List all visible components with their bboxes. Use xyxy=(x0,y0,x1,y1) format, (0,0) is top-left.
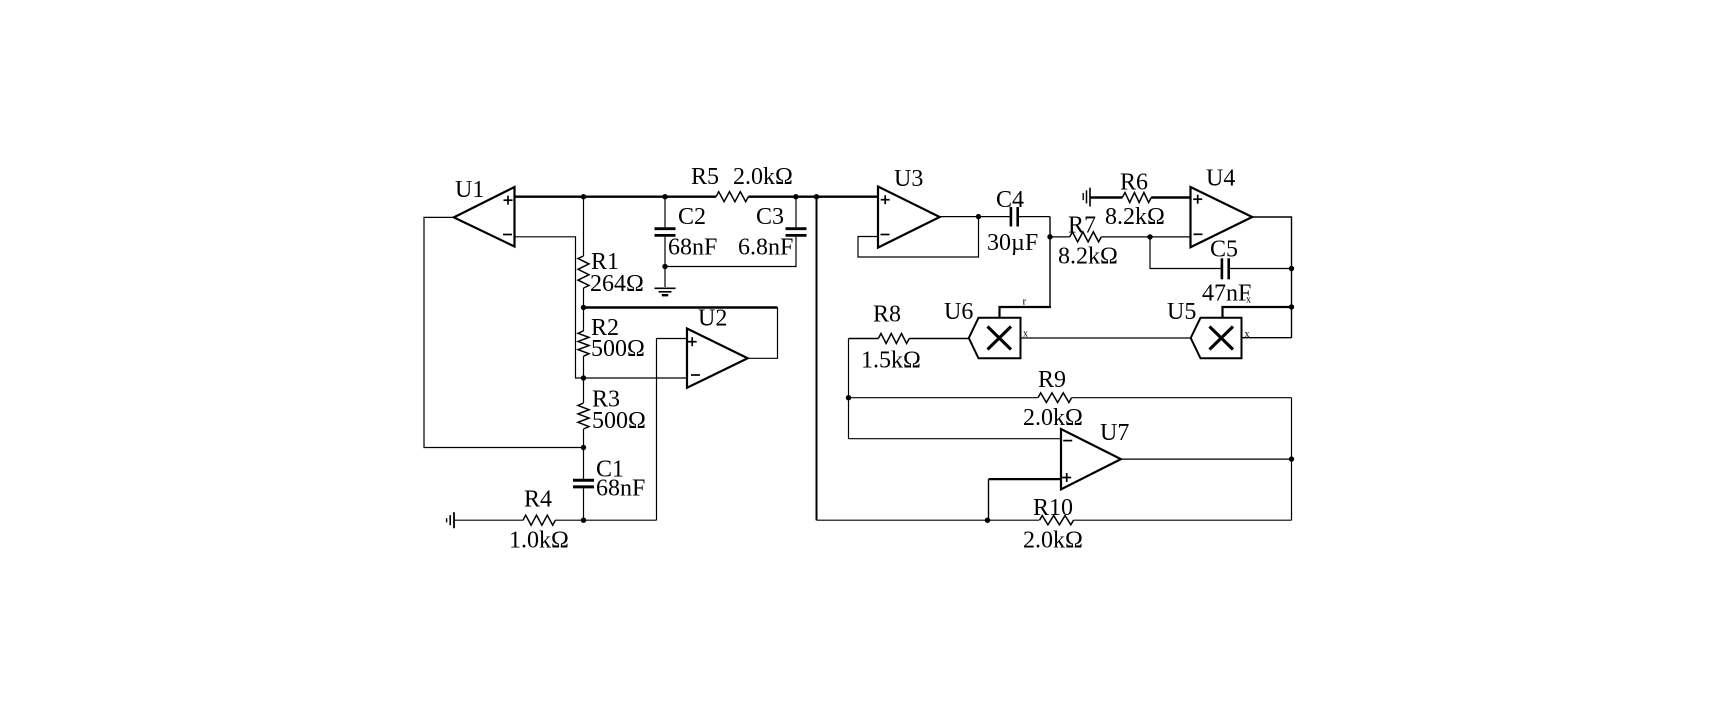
svg-text:500Ω: 500Ω xyxy=(591,336,645,362)
svg-text:R5: R5 xyxy=(691,164,719,190)
svg-text:1.5kΩ: 1.5kΩ xyxy=(861,348,921,374)
svg-text:68nF: 68nF xyxy=(596,476,645,502)
svg-text:U2: U2 xyxy=(698,306,727,332)
svg-text:C4: C4 xyxy=(996,187,1024,213)
svg-text:2.0kΩ: 2.0kΩ xyxy=(1023,528,1083,554)
svg-text:U1: U1 xyxy=(455,177,484,203)
svg-text:x: x xyxy=(1245,329,1250,340)
svg-text:U4: U4 xyxy=(1206,166,1235,192)
svg-text:R7: R7 xyxy=(1068,213,1096,239)
svg-text:8.2kΩ: 8.2kΩ xyxy=(1105,204,1165,230)
svg-text:R9: R9 xyxy=(1038,367,1066,393)
svg-text:47nF: 47nF xyxy=(1202,281,1251,307)
svg-text:U6: U6 xyxy=(944,299,973,325)
svg-text:8.2kΩ: 8.2kΩ xyxy=(1058,244,1118,270)
svg-text:68nF: 68nF xyxy=(668,235,717,261)
svg-text:R4: R4 xyxy=(524,487,552,513)
svg-text:30µF: 30µF xyxy=(987,230,1038,256)
svg-text:500Ω: 500Ω xyxy=(592,408,646,434)
svg-text:R10: R10 xyxy=(1033,495,1073,521)
svg-text:C3: C3 xyxy=(756,204,784,230)
svg-text:U7: U7 xyxy=(1100,420,1129,446)
svg-text:2.0kΩ: 2.0kΩ xyxy=(1023,405,1083,431)
svg-text:2.0kΩ: 2.0kΩ xyxy=(733,164,793,190)
svg-text:R6: R6 xyxy=(1120,170,1148,196)
svg-text:U3: U3 xyxy=(894,166,923,192)
svg-text:x: x xyxy=(1023,329,1028,340)
svg-text:C5: C5 xyxy=(1210,237,1238,263)
svg-text:6.8nF: 6.8nF xyxy=(738,235,793,261)
svg-text:U5: U5 xyxy=(1167,299,1196,325)
svg-text:R8: R8 xyxy=(873,302,901,328)
svg-text:r: r xyxy=(1023,296,1027,308)
svg-text:1.0kΩ: 1.0kΩ xyxy=(509,528,569,554)
svg-text:C2: C2 xyxy=(678,204,706,230)
svg-text:264Ω: 264Ω xyxy=(590,271,644,297)
